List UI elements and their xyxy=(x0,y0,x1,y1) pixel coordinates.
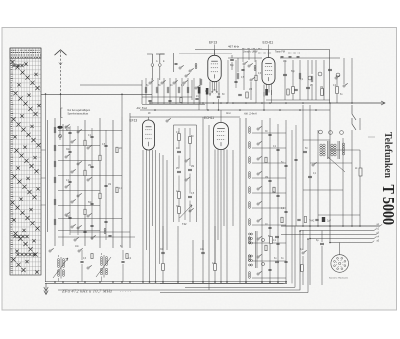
wire bottom mid xyxy=(81,250,83,260)
wire right row 7 xyxy=(252,242,286,244)
mixer blob components xyxy=(185,75,187,77)
table-to-cluster links xyxy=(41,149,46,151)
switch contact S66 xyxy=(257,220,259,222)
capacitor C16 left cluster xyxy=(68,216,71,218)
coil L69 right bus xyxy=(248,272,250,274)
switch contact S1d xyxy=(71,171,73,173)
svg-text:2M: 2M xyxy=(88,165,91,167)
svg-text:T 5000: T 5000 xyxy=(379,185,398,226)
table horizontal X runs xyxy=(13,235,16,238)
wire right row 6 xyxy=(252,224,286,226)
svg-text:Taste FM: Taste FM xyxy=(275,51,285,54)
terminal post antenna input xyxy=(147,54,152,63)
switch S32 xyxy=(250,79,252,81)
switch S52 xyxy=(185,179,187,181)
tube V2 legs xyxy=(263,85,265,97)
tube V2 ECH11 xyxy=(262,58,275,85)
wire row 2 xyxy=(58,145,100,147)
capacitor C95 xyxy=(83,230,86,232)
wire row 8 xyxy=(58,230,100,232)
left bandswitch verticals xyxy=(62,124,64,246)
wire row 1 xyxy=(58,130,122,132)
row above bus components xyxy=(297,218,300,220)
table header text xyxy=(11,50,41,57)
left bandswitch vertical bus xyxy=(47,120,49,232)
module box top rail xyxy=(195,50,330,104)
svg-text:EF13: EF13 xyxy=(209,40,217,44)
rotary contact K1 xyxy=(308,76,312,80)
antenna symbol xyxy=(55,50,67,55)
resistor R52 xyxy=(189,137,192,144)
capacitor C43 xyxy=(328,68,332,70)
tiny value labels sprinkled xyxy=(66,60,358,265)
switch contact S1g xyxy=(65,214,67,216)
mid rail xyxy=(130,116,240,118)
svg-text:Telefunken: Telefunken xyxy=(382,132,393,178)
switch contact S1f xyxy=(71,201,73,203)
resistor R81 xyxy=(301,265,304,272)
antenna line down to mixer xyxy=(121,117,123,248)
switch S95 xyxy=(87,267,89,269)
wire right row 2 xyxy=(252,162,286,164)
capacitor C35 xyxy=(241,68,244,70)
coil L63 right bus xyxy=(248,172,250,174)
resistor R21 xyxy=(180,98,182,103)
coil L62 right bus xyxy=(248,157,250,159)
tube V3 top lead xyxy=(148,117,150,120)
antenna junction dot xyxy=(60,94,62,96)
bus line 3 xyxy=(281,234,376,236)
coil L41 xyxy=(299,73,301,75)
switch contact S61 xyxy=(257,143,259,145)
tube socket diagram circle xyxy=(331,255,349,273)
bus main B+ xyxy=(281,225,380,227)
capacitor C32 xyxy=(238,93,242,95)
capacitor C34 below V1 xyxy=(217,95,220,97)
input coil cluster xyxy=(145,87,147,89)
wire right row 8 xyxy=(252,260,286,262)
resistor R11 left cluster xyxy=(99,155,101,161)
transformer winding b xyxy=(331,144,333,146)
switch contact S1b xyxy=(71,141,73,143)
svg-text:2µF: 2µF xyxy=(327,221,332,223)
resistor R53 xyxy=(178,192,181,199)
resistor R31 xyxy=(246,92,248,98)
left boundary vertical xyxy=(45,94,47,282)
wire row 3 xyxy=(58,160,100,162)
switch contact S2a xyxy=(77,131,79,133)
svg-text:Abl. 5mA: Abl. 5mA xyxy=(136,106,148,110)
resistor R13 left cluster xyxy=(99,193,101,199)
wire input dropper xyxy=(172,53,174,72)
svg-text:1M: 1M xyxy=(320,87,323,89)
input switch contacts xyxy=(149,82,151,84)
bus line 2 xyxy=(300,230,374,232)
note bracket xyxy=(61,108,63,118)
terminal circle below blob xyxy=(58,134,61,137)
tube V1 pointer xyxy=(214,45,216,56)
bus junction dots xyxy=(302,225,304,227)
bus line 5 xyxy=(330,242,372,244)
dark blob parts xyxy=(287,89,289,95)
label row under box rail xyxy=(281,55,284,57)
capacitor C68 xyxy=(284,260,287,262)
switch S41 xyxy=(335,77,337,79)
switch S91 xyxy=(74,239,76,241)
capacitor C94 xyxy=(201,251,205,253)
wire C31 xyxy=(231,55,233,58)
transformer core xyxy=(327,141,329,159)
wire row 4 xyxy=(58,175,122,177)
socket pin numerals xyxy=(336,260,343,266)
center column frame xyxy=(173,125,175,222)
switch contact S69 xyxy=(257,273,259,275)
capacitor C15 left cluster xyxy=(90,202,93,204)
switch contact S1e xyxy=(65,186,67,188)
resistor below V2 dark xyxy=(265,89,268,96)
resistor R16 left cluster xyxy=(116,187,118,193)
switch contact S1c xyxy=(65,156,67,158)
table row label column xyxy=(11,61,14,271)
IF transformer T2 tuning arrow xyxy=(96,257,111,277)
switch contact S1a xyxy=(65,126,67,128)
switch S81 xyxy=(302,252,304,254)
switch S71 xyxy=(312,164,314,166)
wire right row 5 xyxy=(252,207,286,209)
svg-text:2M: 2M xyxy=(249,89,252,91)
coil L61 right bus xyxy=(248,142,250,144)
capacitor C92 xyxy=(121,260,124,262)
pilot lamp heater circle 3 xyxy=(340,131,344,135)
IF transformer T1 tuning arrow xyxy=(53,258,68,278)
capacitor C93 xyxy=(161,251,165,253)
band selector table (left) xyxy=(10,48,41,275)
coil L68 right bus xyxy=(248,255,250,257)
mixer upper parts xyxy=(179,67,181,69)
capacitor C19 left cluster xyxy=(104,184,107,186)
coil L65 right bus xyxy=(248,202,250,204)
bus junction dots top xyxy=(149,102,151,104)
svg-text:467 kHz: 467 kHz xyxy=(228,45,240,49)
capacitor C11 left cluster xyxy=(90,135,93,137)
switch contact S2e xyxy=(77,195,79,197)
wire lower right xyxy=(302,230,304,250)
capacitor C18 left cluster xyxy=(104,144,107,146)
capacitor C60 xyxy=(268,133,271,135)
bottom bus main lower line xyxy=(45,282,287,284)
capacitor C110 left cluster xyxy=(104,220,107,222)
tube V1 EF13 xyxy=(208,55,221,81)
svg-text:Nur bei regelmäßigem: Nur bei regelmäßigem xyxy=(68,109,91,112)
transformer winding c xyxy=(342,143,344,145)
output transformer core xyxy=(255,231,257,268)
svg-text:Abl. 2,4mA: Abl. 2,4mA xyxy=(243,112,257,116)
output stage caps xyxy=(275,235,279,237)
capacitor C22 xyxy=(168,99,171,101)
table X marks diagonal pattern xyxy=(10,60,40,274)
bus Abl 5mA xyxy=(150,102,385,104)
rotary contact K3 xyxy=(336,73,340,77)
svg-text:ECH11: ECH11 xyxy=(204,116,214,120)
coil L60 right bus xyxy=(248,127,250,129)
tube V3 legs to bottom xyxy=(142,150,144,282)
capacitor C13 left cluster xyxy=(90,165,93,167)
wire row 6 xyxy=(58,205,100,207)
bottom bus main xyxy=(45,281,287,283)
tube V4 legs to bottom xyxy=(214,150,216,283)
capacitor C96 xyxy=(108,234,111,236)
wire right row 9 xyxy=(252,277,286,279)
capacitor C67 xyxy=(276,242,279,244)
output stage resistor xyxy=(270,237,273,244)
input cluster wires xyxy=(142,96,192,98)
center column axis xyxy=(184,128,186,220)
coil L31 xyxy=(237,73,239,75)
IF transformer T1 core xyxy=(60,257,62,279)
switch contact S2d xyxy=(87,179,89,181)
pilot lamp heater circle 2 xyxy=(329,131,333,135)
wire mixer drop from antenna rail xyxy=(121,94,123,117)
resistor R41 xyxy=(292,87,295,94)
tube V2 top connection xyxy=(268,50,270,58)
svg-text:Sperrkreisanschluss: Sperrkreisanschluss xyxy=(68,113,90,116)
switch S51 xyxy=(185,160,187,162)
svg-text:1M: 1M xyxy=(108,184,111,186)
switch S42 xyxy=(343,85,345,87)
wire right top cluster xyxy=(343,58,345,84)
capacitor C21 xyxy=(148,99,151,101)
resistor R34 below V1 dark xyxy=(198,87,201,94)
output stage circles xyxy=(261,238,264,241)
resistor R91 xyxy=(91,254,93,259)
ground arrow bottom left xyxy=(45,283,47,293)
switch contact S67 xyxy=(257,238,259,240)
right column verticals xyxy=(261,120,263,283)
capacitor C66 xyxy=(268,226,271,228)
bus anode lower xyxy=(140,109,330,111)
switch contact S2f xyxy=(87,215,89,217)
bus arrowhead right xyxy=(381,101,385,105)
coil L1 on left bus xyxy=(54,127,56,129)
wire mid verticals dropping xyxy=(202,117,204,282)
tube V1 legs xyxy=(209,82,211,95)
resistor R10 left cluster xyxy=(84,140,86,146)
resistor R51 xyxy=(178,134,181,141)
right top cluster verticals xyxy=(284,60,286,100)
svg-text:ECH11: ECH11 xyxy=(263,40,274,44)
resistor R12 left cluster xyxy=(84,170,86,176)
power verticals xyxy=(302,105,304,226)
terminal post earth input xyxy=(160,53,165,55)
wire row 7 xyxy=(58,218,122,220)
capacitor C12 left cluster xyxy=(68,150,71,152)
resistor R43 xyxy=(336,87,339,94)
resistor R54 xyxy=(178,207,181,214)
potentiometer arrow center column xyxy=(180,205,193,218)
capacitor C72 xyxy=(308,175,312,177)
resistor R94 xyxy=(214,264,217,271)
bottom bus fourth with riser xyxy=(185,227,295,288)
switch contact S65 xyxy=(257,203,259,205)
switch S94 xyxy=(78,250,80,252)
svg-text:T42: T42 xyxy=(182,222,187,226)
resistor R14 left cluster xyxy=(84,209,86,215)
resistor R63 xyxy=(265,245,267,251)
capacitor C10 left cluster xyxy=(68,131,71,133)
capacitor C14 left cluster xyxy=(68,180,71,182)
dash left of title xyxy=(368,136,375,138)
switch S53 xyxy=(189,210,191,212)
coil L90 xyxy=(104,228,106,230)
wire interstage xyxy=(237,58,239,72)
switch contact S63 xyxy=(257,173,259,175)
pilot lamp heater circle 1 xyxy=(319,130,323,134)
IF transformer T1 leads xyxy=(58,255,60,257)
bus connector hooks xyxy=(380,224,382,226)
dotted leader after note xyxy=(120,291,132,293)
svg-text:Umsch. UKW: Umsch. UKW xyxy=(243,51,258,54)
IF transformer T1 windings xyxy=(57,259,59,261)
bottom left interconnect wires xyxy=(70,231,130,233)
power cross links xyxy=(303,139,330,141)
capacitor C64 xyxy=(276,194,279,196)
resistor R61 xyxy=(273,187,275,193)
resistor R42 xyxy=(321,89,324,96)
switch contact S2b xyxy=(87,147,89,149)
coil L42 xyxy=(311,76,313,78)
wire right row 1 xyxy=(252,147,286,149)
resistor R92 xyxy=(126,254,128,259)
capacitor C33 xyxy=(234,80,237,82)
mains switch contacts xyxy=(352,105,356,120)
capacitor C42 xyxy=(306,86,310,88)
resistor R33 below V1 dark xyxy=(206,88,209,95)
right top cluster rail xyxy=(280,57,340,59)
wire V1 cathode to bus xyxy=(206,94,208,110)
wire from table across to mixer xyxy=(41,93,152,95)
table row labels xyxy=(11,59,13,273)
capacitor C17 left cluster xyxy=(90,224,93,226)
capacitor C52 xyxy=(188,168,192,170)
capacitor C69 xyxy=(268,268,271,270)
coil L67 right bus xyxy=(248,237,250,239)
coil L6 on left bus xyxy=(54,219,56,221)
bottom rail right extension xyxy=(160,283,284,285)
switch S92 xyxy=(91,237,93,239)
tube V1 pin crosses xyxy=(209,94,211,96)
svg-text:TA42: TA42 xyxy=(309,220,315,223)
capacitor 100pF electrolytic blob xyxy=(57,126,62,129)
resistor R62 xyxy=(281,217,283,223)
capacitor C31 xyxy=(230,58,234,60)
cluster bottom rail xyxy=(266,99,330,101)
switch S93 xyxy=(49,250,51,252)
wire socket lead from bus xyxy=(339,243,341,255)
rotary contact K2 xyxy=(318,72,322,76)
switch contact S1h xyxy=(71,226,73,228)
tube V2 pointer xyxy=(268,45,270,58)
capacitor C81 xyxy=(320,242,324,244)
bus line 4 xyxy=(310,238,374,240)
wire antenna down lead xyxy=(60,94,62,125)
resistor R32 xyxy=(255,75,257,81)
coil L66 right bus xyxy=(248,219,250,221)
capacitor C63 xyxy=(268,179,271,181)
capacitor C61 xyxy=(276,148,279,150)
wire right row 3 xyxy=(252,177,286,179)
wire V2 legs to bus xyxy=(263,92,265,110)
wire right row 0 xyxy=(252,132,286,134)
bus end labels xyxy=(377,224,380,243)
resistor R60 xyxy=(265,157,267,163)
switch S31 xyxy=(243,63,245,65)
wire mid column x296 xyxy=(295,125,297,226)
output transformer coils xyxy=(249,233,251,235)
wire rail drops xyxy=(242,50,244,63)
switch contact S60 xyxy=(257,128,259,130)
input cluster verticals xyxy=(145,78,147,104)
switch S33 xyxy=(248,65,250,67)
coil L4 on left bus xyxy=(54,177,56,179)
capacitor C65 xyxy=(284,210,287,212)
resistor R71 dropper xyxy=(359,168,362,176)
capacitor C41 xyxy=(283,73,287,75)
coil L5 on left bus xyxy=(54,199,56,201)
switch contact S2c xyxy=(77,163,79,165)
switch contact S68 xyxy=(257,256,259,258)
tube V4 top lead xyxy=(220,110,222,123)
capacitor C51 xyxy=(177,150,181,152)
coil L2 on left bus xyxy=(54,145,56,147)
capacitor C53 xyxy=(177,170,181,172)
capacitor C62 xyxy=(284,164,287,166)
center column stubs xyxy=(178,128,180,134)
right bandswitch bus xyxy=(245,118,247,283)
bottom bus second with riser xyxy=(58,231,300,290)
IF transformer T2 leads xyxy=(101,253,103,255)
coil L64 right bus xyxy=(248,187,250,189)
svg-text:Sockel v. Rückseite: Sockel v. Rückseite xyxy=(329,277,349,280)
switch contact S62 xyxy=(257,158,259,160)
IF transformer T2 windings xyxy=(100,257,102,259)
IF transformer T2 core xyxy=(103,255,105,278)
transformer winding a xyxy=(320,144,322,146)
wire right row 4 xyxy=(252,192,286,194)
svg-text:2M: 2M xyxy=(265,177,268,179)
wire below blob xyxy=(59,129,61,140)
wire row 5 xyxy=(58,190,100,192)
transformer pointer arrow xyxy=(328,157,345,172)
interstage verticals xyxy=(227,60,229,103)
resistor R93 xyxy=(162,264,165,271)
switch S54 between mid tubes xyxy=(166,120,168,122)
switch contact S2g xyxy=(77,227,79,229)
resistor R15 left cluster xyxy=(116,147,118,153)
coil L3 on left bus xyxy=(54,161,56,163)
svg-text:2M: 2M xyxy=(191,166,194,168)
svg-text:Abst: Abst xyxy=(226,112,231,115)
tube V4 ECH11 xyxy=(214,123,229,150)
switch contact S64 xyxy=(257,188,259,190)
bottom bus junction dots xyxy=(54,281,56,283)
wire bottom center xyxy=(162,226,164,250)
module boundary line top xyxy=(179,53,232,55)
svg-text:EF13: EF13 xyxy=(130,118,138,122)
bottom center drops xyxy=(177,226,179,282)
capacitor C91 xyxy=(80,260,83,262)
bottom bus third with riser xyxy=(160,239,308,293)
tube V3 EF13 xyxy=(143,120,155,150)
